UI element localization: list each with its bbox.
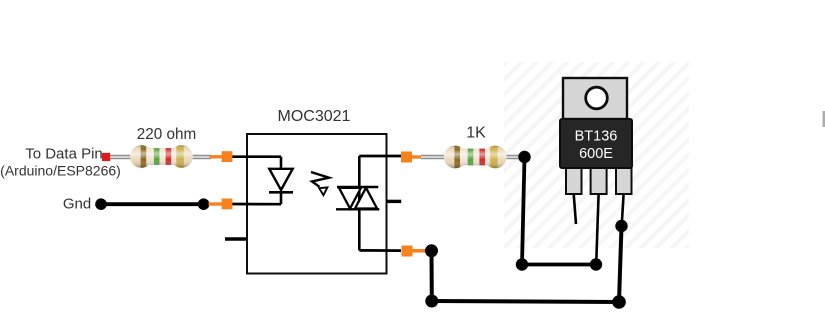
- svg-text:BT136: BT136: [575, 129, 618, 145]
- svg-text:To Data Pin: To Data Pin: [25, 146, 103, 163]
- svg-text:600E: 600E: [579, 146, 613, 162]
- svg-text:MOC3021: MOC3021: [278, 108, 351, 125]
- svg-text:Gnd: Gnd: [63, 196, 91, 213]
- svg-text:220 ohm: 220 ohm: [137, 126, 197, 143]
- svg-text:(Arduino/ESP8266): (Arduino/ESP8266): [0, 163, 121, 179]
- svg-text:1K: 1K: [466, 125, 486, 142]
